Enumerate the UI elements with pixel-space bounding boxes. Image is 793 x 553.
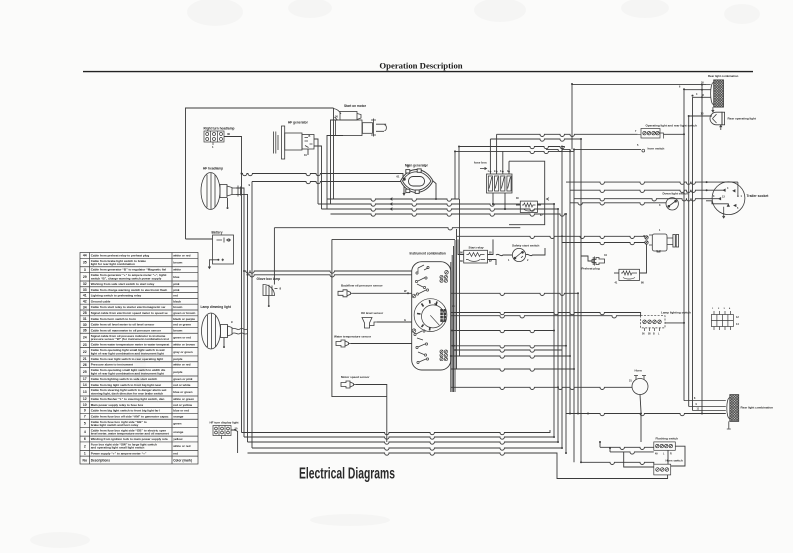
wire: fuse 1 up <box>489 139 491 174</box>
svg-text:Pressure alarm to instrument: Pressure alarm to instrument <box>91 363 133 367</box>
svg-text:22: 22 <box>83 350 87 354</box>
operating light and rear light switch <box>638 129 664 139</box>
wire: bottom bus y437 <box>244 437 554 439</box>
svg-text:green or pink: green or pink <box>173 377 193 381</box>
svg-text:Electrical Diagrams: Electrical Diagrams <box>299 464 395 482</box>
wire: fuse 4 up <box>508 161 510 174</box>
svg-text:Cable from oil level meter to: Cable from oil level meter to oil level … <box>91 323 155 327</box>
lamp: glove box lamp <box>263 284 278 295</box>
svg-text:17: 17 <box>83 377 87 381</box>
junction <box>571 83 573 85</box>
svg-text:Safety start switch: Safety start switch <box>512 244 539 248</box>
wire: bus y271 <box>244 271 412 273</box>
horn switch <box>654 464 671 475</box>
svg-text:red or yellow: red or yellow <box>173 403 192 407</box>
wire: bus y369 <box>451 369 574 371</box>
svg-text:Lamp dimming light: Lamp dimming light <box>201 305 232 309</box>
wire: bus y293.3 <box>451 293 578 295</box>
junction <box>706 189 708 191</box>
fuse box <box>487 174 513 193</box>
svg-text:14: 14 <box>83 383 87 387</box>
rear light combination (bottom) <box>684 395 739 429</box>
wire: top run y84.6 <box>572 84 706 86</box>
svg-text:Operation Description: Operation Description <box>379 60 462 70</box>
svg-text:level meter, water temperature: level meter, water temperature meter and… <box>91 432 169 436</box>
wire: turn lamp feed / bundle v1 <box>224 137 242 433</box>
svg-text:pink: pink <box>173 282 180 286</box>
wire: safety sw link with flex <box>496 254 512 255</box>
junction <box>502 171 504 173</box>
svg-text:Cable from horn switch to horn: Cable from horn switch to horn <box>91 317 136 321</box>
wire: battery positive feed <box>186 238 213 240</box>
svg-text:pressure sensor “W” (for instr: pressure sensor “W” (for instrument comb… <box>91 337 169 341</box>
junction <box>609 447 611 449</box>
battery plus terminal <box>228 239 230 241</box>
junction <box>683 133 685 135</box>
junction <box>683 88 685 90</box>
wire: link up <box>599 442 601 447</box>
wire: horn switch feed <box>581 462 654 464</box>
wire: riser to top bus <box>458 147 460 200</box>
panel corner terminal <box>445 271 449 275</box>
junction <box>247 274 249 276</box>
svg-text:red: red <box>173 451 178 455</box>
svg-text:HF headlamp: HF headlamp <box>203 167 223 171</box>
battery neg terminal <box>217 259 219 261</box>
junction <box>557 441 559 443</box>
svg-text:No: No <box>83 458 88 462</box>
svg-text:Oil level sensor: Oil level sensor <box>361 311 384 315</box>
svg-text:4: 4 <box>84 430 86 434</box>
svg-text:Cable from lighting switch to: Cable from lighting switch to safe start… <box>91 377 158 381</box>
lamp: HF headlamp <box>201 173 241 210</box>
svg-text:fuse box: fuse box <box>474 161 487 165</box>
wiring legend table <box>80 253 198 465</box>
junction <box>569 355 571 357</box>
wire: fuse 1 down <box>492 193 494 204</box>
svg-text:purple: purple <box>173 370 183 374</box>
wire: bus y387.3 <box>451 387 632 389</box>
horn switch terminal small <box>642 149 645 152</box>
wire: flashing to horn right link <box>671 446 685 466</box>
svg-text:blue or green: blue or green <box>173 390 192 394</box>
trailer socket <box>712 182 745 218</box>
instrument panel internals <box>414 265 447 364</box>
connector: harness junction block <box>711 311 733 330</box>
svg-text:9: 9 <box>84 409 86 413</box>
wire: hf gen drop 2 <box>321 150 323 209</box>
lamp: lamp dimming light <box>202 313 233 349</box>
junction <box>569 150 571 152</box>
wire: sensor harness L <box>332 239 387 396</box>
svg-text:white: white <box>172 268 181 272</box>
junction <box>451 330 453 332</box>
svg-text:Cable from big light switch to: Cable from big light switch to front big… <box>91 383 162 387</box>
svg-text:B: B <box>309 135 311 138</box>
connector: HF turn display light <box>213 426 231 440</box>
svg-text:blue or red: blue or red <box>173 409 189 413</box>
wire: top bus y146.5 <box>459 147 564 149</box>
wire: hf gen drop 1 <box>317 150 319 204</box>
junction <box>508 171 510 173</box>
junction <box>580 138 582 140</box>
svg-text:29: 29 <box>83 275 87 279</box>
wire: bus y202.8 right <box>570 203 666 205</box>
wire: vright x702 <box>701 85 703 414</box>
svg-text:25: 25 <box>83 370 87 374</box>
svg-text:3: 3 <box>84 268 86 272</box>
preheat plug <box>592 257 605 266</box>
svg-text:32: 32 <box>83 282 87 286</box>
junction <box>587 413 589 415</box>
svg-text:35: 35 <box>83 261 87 265</box>
wire: water temp lead <box>351 343 412 345</box>
junction <box>688 115 690 117</box>
svg-text:B: B <box>407 165 409 169</box>
svg-text:Ground cable: Ground cable <box>91 299 111 303</box>
wire direction marks <box>390 198 549 211</box>
junction <box>458 146 460 148</box>
svg-text:switch “B”, charge warning swi: switch “B”, charge warning switch power … <box>91 276 162 280</box>
wire: preheat relay left <box>614 272 619 274</box>
starter motor <box>334 109 387 137</box>
wire: vtop x572 <box>571 84 573 149</box>
connector: gauge pin block <box>440 309 446 322</box>
svg-text:yellow: yellow <box>173 437 183 441</box>
svg-text:Rear operating light: Rear operating light <box>728 116 756 120</box>
svg-text:Power supply “+” to ampere met: Power supply “+” to ampere meter “+” <box>91 451 147 455</box>
wire: hf gen out 3 stub <box>307 149 309 155</box>
wire: hf gen out 2 <box>314 146 322 150</box>
wire: top bus y134.3 <box>497 134 638 136</box>
svg-text:red or green: red or green <box>173 323 191 327</box>
junction <box>453 345 455 347</box>
wire: solenoid feeds <box>562 236 645 238</box>
wire: safety sw out with flex <box>526 248 545 256</box>
svg-text:white or brown: white or brown <box>172 343 195 347</box>
wire: preheat feed <box>581 256 592 261</box>
svg-text:black: black <box>173 299 181 303</box>
svg-text:Water temperature sensor: Water temperature sensor <box>334 335 372 339</box>
junction <box>561 447 563 449</box>
svg-text:Main power supply relay to fus: Main power supply relay to fuse box <box>91 403 144 407</box>
wire: starter lead 2 <box>331 120 338 204</box>
svg-text:28: 28 <box>83 311 87 315</box>
svg-text:brown: brown <box>173 328 182 332</box>
svg-text:Operating light and rear light: Operating light and rear light switch <box>646 124 698 128</box>
svg-text:green or red: green or red <box>173 336 191 340</box>
wire: trailer feeds <box>566 182 738 184</box>
svg-text:white or green: white or green <box>172 397 194 401</box>
main generator <box>401 169 437 199</box>
svg-text:Flashing switch: Flashing switch <box>656 437 679 441</box>
fuse box pointer arrow <box>480 167 487 169</box>
svg-text:purple: purple <box>173 357 183 361</box>
connector: panel connector C <box>440 350 448 361</box>
wire: bus y209 <box>322 209 559 211</box>
wire: harness drop to bus <box>386 397 388 442</box>
svg-text:Cable from oil manometer to oi: Cable from oil manometer to oil pressure… <box>91 328 162 332</box>
wire: panel stub up <box>456 229 458 236</box>
wire: panel right bus 4 <box>459 199 461 356</box>
wire: glove lamp ground <box>268 296 270 306</box>
svg-text:Cable from generator “B” to re: Cable from generator “B” to regulator “M… <box>91 268 167 272</box>
wire: bus y356 <box>451 356 570 358</box>
junction <box>492 203 494 205</box>
wire: horn to bus drop <box>640 395 641 443</box>
junction <box>565 345 567 347</box>
svg-text:33: 33 <box>83 288 87 292</box>
connector: panel connector B <box>440 275 448 282</box>
svg-text:red: red <box>173 294 178 298</box>
svg-text:36: 36 <box>83 329 87 333</box>
svg-text:gray or green: gray or green <box>173 350 193 354</box>
svg-text:horn switch: horn switch <box>648 147 665 151</box>
wire: vmid x566 <box>565 214 567 453</box>
wire: vmid x562 <box>561 147 563 449</box>
wire: riser x455 <box>454 151 456 199</box>
wire: lamp switch feeds <box>451 313 641 316</box>
svg-text:white or red: white or red <box>172 363 190 367</box>
wire: bus y199 <box>327 199 459 201</box>
svg-text:Cable from rear light switch t: Cable from rear light switch to rear ope… <box>91 357 163 361</box>
wire: panel right bus 2 <box>453 246 455 392</box>
svg-text:Cable from fuse box off side “: Cable from fuse box off side “AM” to gen… <box>91 414 169 418</box>
wire: panel right bus 1b <box>451 255 453 392</box>
svg-text:7: 7 <box>84 415 86 419</box>
wire: vmid x570 <box>569 151 571 413</box>
wire: bus y204 <box>318 204 520 206</box>
wire: bottom bus y448 <box>252 448 562 450</box>
junction <box>573 368 575 370</box>
svg-text:24: 24 <box>83 336 87 340</box>
svg-text:Winding from ignition lock to: Winding from ignition lock to main power… <box>91 437 168 441</box>
junction <box>692 95 694 97</box>
rear light combination (top) <box>706 80 724 112</box>
wire: lamp switch out <box>665 322 684 324</box>
wire: fuse 4 down <box>504 193 506 209</box>
glove lamp ground dot <box>268 305 270 307</box>
svg-text:Rear light combination: Rear light combination <box>741 406 774 410</box>
svg-text:31: 31 <box>83 317 87 321</box>
svg-text:and operating light small ligh: and operating light small light switch <box>91 446 145 450</box>
wire: panel right bus 1 <box>450 262 452 392</box>
junction <box>577 413 579 415</box>
svg-text:5: 5 <box>84 422 86 426</box>
svg-text:Right turn headlamp: Right turn headlamp <box>204 127 235 131</box>
wire: bottom bus y453 <box>248 453 668 479</box>
junction <box>490 171 492 173</box>
wire: bus y330.5 <box>451 331 554 333</box>
wire: left enclosure feed <box>186 108 334 239</box>
junction <box>243 270 245 272</box>
junction <box>407 292 409 294</box>
junction <box>706 181 708 183</box>
ground dot <box>227 207 229 209</box>
lamp lighting switch <box>641 316 665 331</box>
svg-text:Cable from start relay to star: Cable from start relay to starter electr… <box>91 305 166 309</box>
connector: right turn headlamp <box>204 131 224 145</box>
junction <box>553 330 555 332</box>
wire: bus y350 <box>455 350 562 352</box>
junction <box>241 173 243 175</box>
wire: preheat relay to solenoid <box>640 244 647 273</box>
start relay box <box>464 250 488 263</box>
svg-text:Preheat plug: Preheat plug <box>582 267 600 271</box>
wire: top bus y149.4 <box>546 149 641 151</box>
svg-text:13: 13 <box>83 390 87 394</box>
junction <box>504 208 506 210</box>
junction <box>573 148 575 150</box>
wire: relay right stub <box>537 204 541 206</box>
junction <box>450 355 452 357</box>
rear operating light <box>710 112 725 130</box>
junction <box>577 292 579 294</box>
junction <box>565 213 567 215</box>
junction <box>553 436 555 438</box>
svg-text:Cable from flasher “L” to stee: Cable from flasher “L” to steering light… <box>91 397 165 401</box>
svg-text:green or brown: green or brown <box>173 311 195 315</box>
sensor: oil level sensor <box>362 318 377 329</box>
svg-text:Instrument combination: Instrument combination <box>410 252 446 256</box>
wire: relay out right <box>537 203 555 205</box>
HF generator <box>274 126 315 159</box>
wire: fuse 2 up <box>496 134 498 174</box>
wire: dimming light squiggle leads <box>232 328 248 334</box>
junction <box>454 349 456 351</box>
junction <box>557 208 559 210</box>
battery box <box>213 235 234 264</box>
svg-text:30: 30 <box>227 132 231 136</box>
preheat relay box <box>619 269 640 280</box>
svg-text:6: 6 <box>84 437 86 441</box>
junction <box>492 203 494 205</box>
svg-text:green: green <box>173 422 181 426</box>
wire: bundle v2 from headlamp <box>236 188 244 437</box>
wire: starter main lead <box>333 108 335 199</box>
wire: loop to relay <box>509 161 545 225</box>
wire: bus y227.7 <box>274 228 520 230</box>
fuel shutoff solenoid <box>645 234 679 252</box>
svg-text:orange: orange <box>173 414 183 418</box>
svg-text:10: 10 <box>83 403 87 407</box>
wire: vright x688.7 <box>688 116 690 407</box>
wire: headlamp ground lead <box>227 198 229 207</box>
wire: relay feed <box>488 239 494 254</box>
wire: vmid x581 <box>580 139 582 462</box>
wire: fuse 3 up <box>502 151 504 174</box>
svg-text:44: 44 <box>83 254 87 258</box>
svg-text:Backflow oil pressure sensor: Backflow oil pressure sensor <box>341 284 384 288</box>
svg-text:23: 23 <box>83 343 87 347</box>
wire: bus y181.5 <box>252 182 401 449</box>
wire: rear op light lead <box>689 115 712 117</box>
safety start switch <box>512 248 525 261</box>
junction <box>599 441 601 443</box>
wire: oil pressure lead <box>353 292 412 294</box>
svg-text:Working from safe start switch: Working from safe start switch to start … <box>91 282 155 286</box>
wire: link up2 <box>609 448 611 452</box>
junction <box>640 413 642 415</box>
wire: horn switch feed link <box>624 452 654 467</box>
wire: v x578 <box>577 293 579 413</box>
wire: relay to top <box>458 239 464 254</box>
svg-text:26: 26 <box>83 363 87 367</box>
junction <box>561 146 563 148</box>
wire: vmid x574 <box>573 149 575 462</box>
svg-text:Horn: Horn <box>635 369 642 373</box>
junction <box>496 171 498 173</box>
wire: battery ground lead <box>208 260 218 269</box>
svg-text:41: 41 <box>83 294 87 298</box>
svg-text:12: 12 <box>83 397 87 401</box>
svg-text:pink: pink <box>173 288 180 292</box>
svg-text:HF turn display light: HF turn display light <box>210 421 239 425</box>
wire: bus y345.8 <box>451 346 566 348</box>
svg-text:Lighting switch to preheating: Lighting switch to preheating relay <box>91 294 142 298</box>
svg-text:Horn switch: Horn switch <box>666 459 683 463</box>
flashing switch <box>654 442 676 450</box>
svg-text:black or purple: black or purple <box>173 317 195 321</box>
svg-text:light of rear light combinatio: light of rear light combination and inst… <box>91 371 164 375</box>
svg-text:orange: orange <box>173 430 183 434</box>
svg-text:Glove box lamp: Glove box lamp <box>257 277 281 281</box>
svg-text:Battery: Battery <box>212 231 223 235</box>
svg-text:42: 42 <box>83 300 87 304</box>
solenoid feed junction <box>643 235 645 237</box>
wire: vmid x554 <box>553 204 555 437</box>
junction <box>569 413 571 415</box>
wire: vmid x558 <box>557 209 559 442</box>
junction <box>234 429 236 431</box>
svg-text:Cable from charge warning swit: Cable from charge warning switch to elec… <box>91 288 168 292</box>
junction <box>701 413 703 415</box>
wire: trailer loop <box>706 201 728 205</box>
junction <box>504 208 506 210</box>
svg-text:34: 34 <box>83 305 87 309</box>
wire: bus y274.8 <box>248 275 412 277</box>
svg-text:red or white: red or white <box>173 383 191 387</box>
svg-text:Rear light combination: Rear light combination <box>708 74 739 78</box>
wire: turn display link to bus <box>231 430 238 453</box>
svg-text:G: G <box>404 318 406 322</box>
wire: top bus y139 <box>490 139 581 141</box>
wire: flashing switch feeds <box>600 447 654 449</box>
wire: hf gen out 1 <box>314 139 318 150</box>
svg-text:Cable from big light switch to: Cable from big light switch to front big… <box>91 409 161 413</box>
wire: bus y214 <box>331 214 567 216</box>
svg-text:Color (mark): Color (mark) <box>173 458 192 462</box>
wire: vright x684 <box>683 90 685 401</box>
svg-text:Cable from preheat relay to pr: Cable from preheat relay to preheat plug <box>91 254 150 258</box>
junction <box>701 89 703 91</box>
svg-text:white or red: white or red <box>172 254 190 258</box>
wire: top bus y151.4 <box>455 151 570 153</box>
junction <box>701 84 703 86</box>
junction <box>454 150 456 152</box>
wire: bottom bus y442 <box>248 442 559 444</box>
wire: run y89.7 <box>684 89 706 91</box>
svg-text:Descriptions: Descriptions <box>91 458 111 462</box>
svg-text:white or red: white or red <box>172 444 190 448</box>
svg-text:Start on motor: Start on motor <box>344 104 367 108</box>
wire: starter lead 3 <box>327 136 343 210</box>
wire: panel right bus 2b <box>454 240 456 392</box>
wire: panel right bus 3 <box>456 236 458 369</box>
header rule <box>83 71 753 73</box>
wire: relay left stub <box>516 204 520 206</box>
wire: bus y413.5 <box>566 414 726 416</box>
